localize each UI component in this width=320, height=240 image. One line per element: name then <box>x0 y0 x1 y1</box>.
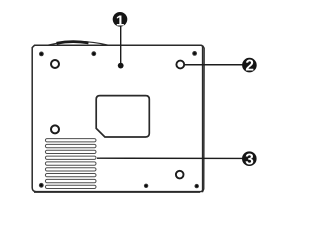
svg-text:3: 3 <box>245 151 254 168</box>
svg-text:2: 2 <box>245 58 254 75</box>
svg-text:1: 1 <box>116 12 124 29</box>
